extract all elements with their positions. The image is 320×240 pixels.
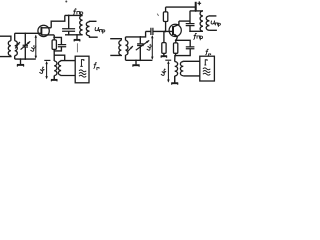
junction (139, 36, 141, 38)
wire (209, 15, 216, 17)
wire (65, 14, 83, 16)
junction (76, 34, 78, 36)
junction (135, 59, 137, 61)
transistor V2 envelope (169, 24, 181, 36)
stray mark (65, 1, 67, 3)
wire (183, 75, 200, 77)
transistor V2 emitter arrow (174, 34, 177, 37)
wire (51, 15, 65, 27)
wire (0, 36, 11, 41)
wire (174, 56, 176, 62)
wire (90, 36, 98, 37)
wire (125, 37, 127, 60)
transformer T1 primary (8, 41, 11, 56)
transformer T6 right winding (180, 62, 183, 76)
junction (53, 36, 55, 38)
transformer T3 right winding (58, 61, 61, 75)
wire (65, 34, 83, 36)
wire (126, 31, 146, 37)
wire (126, 59, 153, 61)
generator G2 waves (203, 68, 210, 70)
transistor V2 base bar (172, 26, 174, 35)
label f_pr (73, 9, 76, 15)
wire (53, 76, 55, 80)
stray mark (157, 14, 158, 16)
node uc2 arrow (151, 36, 153, 59)
transformer T5 secondary (206, 16, 209, 30)
wire (146, 30, 173, 32)
transistor V2 collector (173, 21, 179, 27)
wire (53, 35, 55, 38)
capacitor C6 (186, 24, 195, 26)
junction (24, 58, 26, 60)
wire (190, 10, 203, 12)
wire (15, 58, 36, 60)
junction (68, 15, 70, 17)
junction (174, 55, 176, 57)
transformer T2 secondary (86, 22, 89, 36)
variable inductor arrow L3 (127, 46, 133, 52)
node ug2 label (161, 69, 167, 76)
stray mark (76, 43, 78, 52)
capacitor C1 variable arrow (21, 41, 31, 49)
label f_g2 (205, 49, 208, 55)
resistor R4 (174, 43, 178, 53)
wire (174, 76, 176, 83)
ground (76, 35, 78, 40)
wire (54, 37, 61, 51)
junction (189, 30, 191, 32)
node ug arrow (46, 62, 48, 78)
resistor R1 (52, 40, 56, 50)
transistor V1 channel bar (40, 27, 42, 35)
capacitor C3 (58, 45, 66, 47)
supply rail (166, 6, 196, 8)
ground (163, 53, 165, 56)
resistor R3 (162, 43, 166, 54)
junction (195, 6, 197, 8)
junction (164, 30, 166, 32)
ground (135, 60, 137, 65)
wire (176, 40, 190, 47)
wire (163, 53, 165, 55)
wire (165, 22, 167, 32)
wire (179, 20, 190, 22)
transistor V2 emitter (173, 34, 177, 41)
wire (175, 49, 190, 56)
generator G1 box (75, 56, 89, 83)
wire (110, 54, 121, 56)
wire (0, 56, 11, 57)
junction (68, 34, 70, 36)
node uc2 label (147, 43, 153, 50)
junction (139, 59, 141, 61)
junction (53, 50, 55, 52)
node ug reference bar (44, 59, 50, 61)
label f_pr2 (193, 33, 196, 39)
label u_pr2 (211, 21, 215, 24)
label u_pr (95, 27, 99, 31)
wire (190, 30, 203, 32)
wire (53, 49, 55, 61)
wire (90, 20, 97, 23)
transformer T4 primary (119, 40, 121, 55)
wire (15, 32, 42, 34)
label f_g (93, 63, 96, 69)
junction (24, 32, 26, 34)
transformer T3 left winding (54, 61, 57, 75)
transformer T6 left winding (175, 62, 178, 76)
transistor V1 envelope (38, 25, 49, 36)
transformer T4 secondary / inductor L3 (126, 40, 128, 55)
wire (14, 33, 16, 59)
generator G1 letter (80, 60, 84, 67)
variable inductor arrow L1 (15, 42, 20, 49)
wire (189, 26, 191, 32)
ground (53, 76, 55, 80)
wire (175, 40, 177, 43)
capacitor C4 leads (139, 37, 141, 60)
wire (175, 53, 177, 55)
capacitor C5 (151, 28, 153, 35)
capacitor C4 variable arrow (136, 40, 149, 50)
ground (20, 59, 22, 65)
capacitor C1 leads (24, 33, 26, 59)
node ug label (39, 67, 45, 74)
inductor L2 tank coil (80, 15, 83, 34)
transistor V1 drain lead (41, 27, 51, 29)
node ug2 arrow (167, 62, 169, 82)
junction (20, 58, 22, 60)
capacitor C2 leads (68, 15, 70, 34)
wire (61, 74, 75, 76)
generator G2 box (200, 56, 215, 81)
capacitor C7 (186, 47, 195, 49)
node ug2 reference bar (165, 59, 171, 61)
capacitor C2 (62, 29, 75, 31)
wire (61, 60, 75, 63)
capacitor C4 (137, 44, 144, 46)
wire (165, 7, 167, 12)
transistor V1 source lead (41, 34, 54, 36)
inductor L4 tank coil (200, 11, 203, 31)
junction (175, 39, 177, 41)
wire (189, 11, 191, 24)
wire (54, 55, 64, 60)
supply + terminal (195, 2, 197, 11)
resistor R2 (163, 12, 167, 22)
wire (183, 60, 200, 62)
generator G2 letter (204, 60, 207, 65)
wire (209, 29, 217, 31)
generator G1 waves (79, 70, 86, 72)
ground (174, 76, 176, 83)
wire (163, 31, 165, 42)
transformer T1 secondary / tank inductor L1 (15, 41, 18, 56)
label + (198, 1, 202, 5)
wire (54, 37, 61, 44)
capacitor C1 (23, 45, 28, 47)
junction (195, 10, 197, 12)
node uc arrow (35, 36, 37, 58)
node uc label (30, 44, 36, 51)
wire (110, 39, 121, 41)
